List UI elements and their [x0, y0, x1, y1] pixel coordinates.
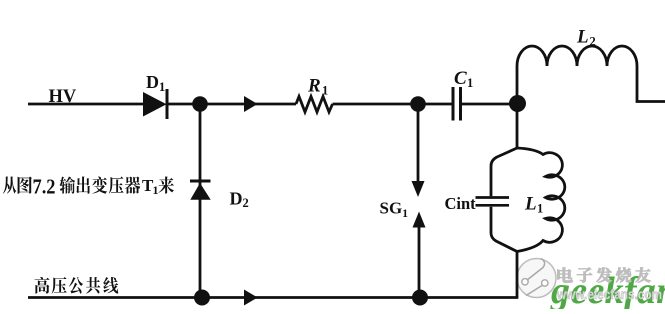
svg-text:7.2: 7.2: [33, 175, 56, 199]
svg-text:1: 1: [402, 208, 408, 220]
wire tank bottom to bottom wire: [516, 252, 519, 298]
wire D1 to node A: [168, 103, 200, 106]
wire top HV lead: [28, 103, 145, 106]
spark gap SG1 lower arrow: [413, 212, 426, 299]
watermark logo circle: [517, 259, 556, 298]
tank left branch with capacitor Cint: [476, 148, 518, 252]
wire R1 to node B: [333, 103, 419, 106]
wire D2 branch vertical: [199, 104, 202, 298]
svg-text:HV: HV: [49, 87, 77, 107]
wire node A to R1: [200, 103, 296, 106]
label from-transformer chinese annotation: [3, 175, 174, 199]
svg-text:L: L: [576, 27, 589, 48]
diode D2: [190, 181, 211, 200]
inductor L2: [517, 46, 665, 105]
svg-text:2: 2: [590, 35, 596, 49]
svg-text:C: C: [454, 68, 467, 89]
svg-text:Cint: Cint: [445, 194, 477, 213]
capacitor C1: [453, 87, 461, 121]
wire bottom common line: [28, 296, 518, 299]
diode D1: [143, 89, 167, 119]
svg-text:R: R: [307, 76, 321, 97]
arrowhead on bottom wire: [244, 290, 258, 306]
svg-text:SG: SG: [380, 199, 403, 218]
inductor L1 right branch of tank: [517, 148, 565, 252]
node E junction dot: [412, 290, 428, 306]
svg-text:1: 1: [153, 183, 159, 197]
node B junction dot: [410, 96, 426, 112]
wire node C to tank top: [516, 104, 519, 148]
node D junction dot: [194, 290, 210, 306]
spark gap SG1 upper arrow: [412, 104, 425, 197]
resistor R1: [296, 97, 333, 113]
svg-text:1: 1: [537, 202, 543, 216]
wire C1 to node C: [462, 103, 517, 106]
svg-text:www.elecfans.com: www.elecfans.com: [556, 287, 662, 302]
svg-text:L: L: [524, 194, 537, 215]
watermark chinese text 电子发烧友: [558, 267, 651, 282]
svg-text:1: 1: [467, 76, 473, 90]
node C junction dot: [509, 95, 526, 112]
svg-text:1: 1: [322, 84, 328, 98]
node A junction dot: [192, 96, 208, 112]
label high-voltage common line chinese annotation: [35, 277, 119, 294]
wire node B to C1: [418, 103, 452, 106]
arrowhead on top wire: [244, 96, 258, 112]
